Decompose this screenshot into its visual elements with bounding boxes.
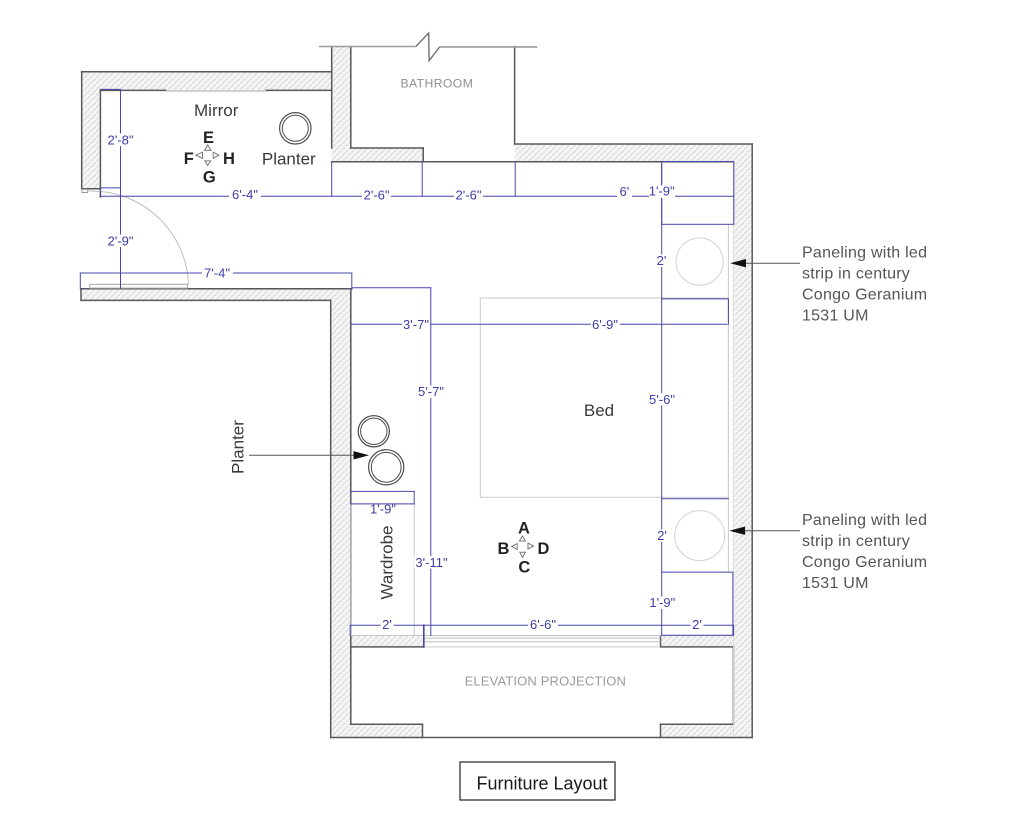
dim bottom left tick xyxy=(349,625,351,635)
triangle up ABCD xyxy=(519,536,525,541)
label 7'-4" xyxy=(202,267,233,280)
panel circle upper right xyxy=(676,238,723,285)
svg-text:Paneling with led: Paneling with led xyxy=(802,512,927,529)
wall outline: elevation stub right top xyxy=(661,723,734,725)
label 5'-6" xyxy=(649,393,676,406)
compass ABCD letters xyxy=(497,520,549,577)
title box xyxy=(460,762,615,800)
wall hatch: bottom wall right segment xyxy=(661,636,735,647)
label 1'-9" top right xyxy=(649,185,675,198)
door swing arc xyxy=(89,191,189,285)
wall outline: outer bottom xyxy=(331,737,753,739)
svg-text:D: D xyxy=(538,540,550,558)
dim vertical 2'-8"/2'-9" line xyxy=(120,90,122,288)
wall outline: top-left room inner top right part xyxy=(266,89,332,91)
svg-text:6'-4": 6'-4" xyxy=(232,187,258,202)
svg-text:2'-9": 2'-9" xyxy=(108,233,134,248)
triangle down ABCD xyxy=(520,552,526,557)
label 2'-6" second xyxy=(454,189,483,202)
planter leader line left xyxy=(249,454,354,456)
label 2' upper circle xyxy=(655,255,668,268)
svg-text:strip in century: strip in century xyxy=(802,266,910,283)
wall outline: elevation stub left top xyxy=(351,723,423,725)
dim tick left vertical xyxy=(99,188,101,196)
svg-text:1'-9": 1'-9" xyxy=(649,595,675,610)
blue rect below lower circle xyxy=(662,572,733,635)
planter circle mid lower inner ring xyxy=(371,452,401,482)
svg-text:5'-7": 5'-7" xyxy=(418,384,444,399)
svg-text:2': 2' xyxy=(657,528,667,543)
panel circle lower right xyxy=(675,511,725,561)
dim tick top at wall inner xyxy=(100,88,120,90)
svg-text:H: H xyxy=(223,150,235,168)
triangle left EFGH xyxy=(196,152,203,158)
triangle up EFGH xyxy=(205,145,211,151)
light vertical strip line right of bed xyxy=(727,224,729,572)
wall outline: elevation stub right side xyxy=(660,724,662,737)
svg-text:1531 UM: 1531 UM xyxy=(802,308,869,325)
label 1'-9" right lower xyxy=(649,597,676,610)
bed rectangle xyxy=(480,298,728,497)
dim 7'-4" right tick xyxy=(351,273,353,289)
label 2'-8" xyxy=(106,134,135,147)
dim 7'-4" left tick xyxy=(79,273,81,289)
light inner face line of bottom wall xyxy=(351,635,734,637)
dim connector wall corner to vertical xyxy=(352,287,431,289)
dim 3'-7"/6'-9" horizontal xyxy=(352,323,727,325)
label 6'-6" xyxy=(528,619,558,632)
svg-text:strip in century: strip in century xyxy=(802,533,910,550)
label 2' bottom right xyxy=(691,619,704,632)
wall outline: lower-left wall bottom xyxy=(81,299,331,301)
svg-text:ELEVATION PROJECTION: ELEVATION PROJECTION xyxy=(465,674,626,689)
light line between bottom jambs at box top xyxy=(424,646,661,648)
wall outline: long inner top line of bedroom xyxy=(332,161,734,163)
blue dimension lines xyxy=(80,89,734,647)
planter circle mid upper inner ring xyxy=(361,418,387,444)
wall outline: top-left room wall bottom end xyxy=(82,188,101,190)
dim main horizontal top chain xyxy=(100,195,733,197)
dim extension bathroom left xyxy=(331,162,333,197)
wall hatch: lower-left horizontal wall xyxy=(81,289,352,301)
dim bottom right end tick xyxy=(733,625,735,635)
wall outline: top-left room inner top left part xyxy=(100,89,166,91)
door jamb stop block xyxy=(82,189,88,192)
wall outline: top-left room inner left xyxy=(99,90,101,197)
svg-text:1'-9": 1'-9" xyxy=(370,502,396,517)
wall outline: bottom wall right segment bottom xyxy=(661,646,734,648)
paneling annotation 1 leader xyxy=(745,262,800,264)
dim vertical 5'-7"/3'-11" line xyxy=(430,288,432,636)
break line on bathroom top wall right part xyxy=(440,46,538,48)
wall outline: lower-left wall left end xyxy=(80,289,82,301)
planter circle mid lower outer ring xyxy=(369,450,404,485)
svg-text:1531 UM: 1531 UM xyxy=(802,575,869,592)
svg-text:2'-6": 2'-6" xyxy=(456,188,482,203)
dim extension bathroom jamb xyxy=(421,162,423,197)
paneling annotation 2 leader xyxy=(744,530,800,532)
svg-text:2': 2' xyxy=(382,617,392,632)
wall outline: lower-left outer vertical xyxy=(330,300,332,737)
svg-text:Bed: Bed xyxy=(584,401,614,420)
dim bottom tick at x=423.8 xyxy=(423,625,425,647)
svg-text:F: F xyxy=(184,150,194,168)
wall outline: right outer xyxy=(751,144,753,738)
wall outline: lower-left inner vertical xyxy=(350,289,352,724)
planter leader arrowhead xyxy=(354,451,370,459)
svg-text:Paneling with led: Paneling with led xyxy=(802,244,927,261)
wall hatch: bathroom bottom wall left segment xyxy=(351,148,423,162)
dim bottom long chain xyxy=(350,624,733,626)
svg-text:Mirror: Mirror xyxy=(194,101,239,120)
svg-text:3'-7": 3'-7" xyxy=(403,317,429,332)
wall hatch: elevation bottom-left stub xyxy=(331,724,423,737)
wall outline: top-left room outer top xyxy=(82,71,332,73)
wall hatch: bottom wall left segment xyxy=(351,636,424,647)
label 2'-6" first xyxy=(362,189,391,202)
wall hatch: elevation bottom-right stub xyxy=(661,724,753,737)
dimension labels with white gaps xyxy=(106,132,704,632)
dim planter shelf line xyxy=(351,490,414,492)
wall outline: bottom wall left segment bottom xyxy=(351,646,424,648)
light inner face line of right wall xyxy=(732,162,734,737)
svg-text:6'-9": 6'-9" xyxy=(592,317,618,332)
dim 7'-4" horizontal xyxy=(80,272,352,274)
triangle left ABCD xyxy=(512,544,518,550)
paneling annotation 2 text xyxy=(802,512,927,592)
wall outline: elevation box right side xyxy=(732,647,734,724)
svg-text:3'-11": 3'-11" xyxy=(415,555,448,570)
mirror strip on top wall xyxy=(166,90,266,92)
door leaf xyxy=(90,284,188,288)
label 5'-7" xyxy=(417,386,445,399)
svg-text:G: G xyxy=(203,168,216,186)
svg-text:B: B xyxy=(497,540,509,558)
triangle right EFGH xyxy=(213,152,219,158)
svg-text:E: E xyxy=(203,129,214,147)
compass ABCD triangles xyxy=(512,536,534,557)
svg-text:6'-6": 6'-6" xyxy=(530,617,556,632)
window threshold line 1 xyxy=(424,637,661,639)
paneling annotation 2 arrowhead xyxy=(729,527,745,535)
svg-text:2': 2' xyxy=(657,253,667,268)
wall hatch: bathroom left wall xyxy=(332,47,351,162)
label 3'-11" xyxy=(414,556,449,569)
wall outline: elevation stub left side xyxy=(422,724,424,737)
svg-text:Planter: Planter xyxy=(229,420,248,474)
svg-text:Wardrobe: Wardrobe xyxy=(377,525,396,599)
wall outline: bottom wall left jamb xyxy=(423,636,425,647)
wall outline: bathroom left wall east face xyxy=(350,47,352,149)
triangle down EFGH xyxy=(205,161,211,166)
dim planter shelf right tick xyxy=(413,491,415,504)
planter circle in top room outer ring xyxy=(280,113,311,144)
label 3'-7" xyxy=(402,318,430,331)
svg-text:2': 2' xyxy=(692,617,702,632)
break line on bathroom top wall left part xyxy=(319,46,416,48)
window threshold line 2 xyxy=(424,641,661,643)
svg-text:Congo Geranium: Congo Geranium xyxy=(802,287,927,304)
dim 1'-9" wardrobe line xyxy=(351,503,414,505)
compass EFGH letters xyxy=(184,129,235,186)
svg-text:2'-6": 2'-6" xyxy=(364,188,390,203)
svg-text:6': 6' xyxy=(620,184,630,199)
dim vertical right 5'-6" chain xyxy=(661,162,663,636)
label 2' lower circle xyxy=(656,530,669,543)
blue nightstand rect top right xyxy=(662,162,734,225)
wall outline: top-left room outer left xyxy=(81,72,83,189)
wall outline: bathroom door jamb xyxy=(422,148,424,162)
wall outline: lower-left wall top xyxy=(81,288,352,290)
dim extension bathroom right xyxy=(514,162,516,197)
svg-text:Planter: Planter xyxy=(262,149,316,168)
label 2'-9" xyxy=(106,235,135,248)
svg-text:C: C xyxy=(518,559,530,577)
wall outline: bathroom right side line xyxy=(514,47,516,145)
wall hatch: top-left room left wall xyxy=(82,90,101,188)
svg-text:1'-9": 1'-9" xyxy=(649,183,675,198)
wall hatch: top-left room top wall xyxy=(82,72,332,91)
label 2' bottom left xyxy=(381,619,394,632)
wall hatch: right wall xyxy=(734,144,752,738)
blue line right of bed bottom xyxy=(662,498,729,500)
svg-text:7'-4": 7'-4" xyxy=(204,265,230,280)
paneling annotation 1 arrowhead xyxy=(730,259,746,267)
compass EFGH triangles xyxy=(196,145,219,166)
label 6'-9" xyxy=(591,318,620,331)
break zigzag symbol xyxy=(416,33,440,61)
wall hatch: lower-left vertical wall xyxy=(331,300,351,737)
planter circle mid upper outer ring xyxy=(358,416,389,447)
wardrobe rectangle xyxy=(351,504,414,636)
label 6' xyxy=(617,187,632,200)
wall outline: bathroom bottom inner xyxy=(351,147,423,149)
triangle right ABCD xyxy=(528,543,534,549)
wall hatch: bedroom top wall xyxy=(515,144,753,162)
paneling annotation 1 text xyxy=(802,244,927,324)
svg-text:Furniture Layout: Furniture Layout xyxy=(476,773,607,793)
svg-text:BATHROOM: BATHROOM xyxy=(401,77,474,91)
svg-text:Congo Geranium: Congo Geranium xyxy=(802,554,927,571)
svg-text:2'-8": 2'-8" xyxy=(108,132,134,147)
svg-text:5'-6": 5'-6" xyxy=(649,392,675,407)
planter circle in top room inner ring xyxy=(282,115,308,141)
dim tick mid at y=187.9 xyxy=(100,187,120,189)
wall outline: bottom wall right jamb xyxy=(660,636,662,647)
blue rect below upper circle xyxy=(662,299,729,324)
svg-text:A: A xyxy=(518,520,530,538)
wall outlines dark xyxy=(81,47,752,738)
wall outline: bathroom left wall west face xyxy=(331,47,333,149)
wall outline: bedroom top outer xyxy=(515,143,753,145)
label 6'-4" xyxy=(229,189,261,202)
